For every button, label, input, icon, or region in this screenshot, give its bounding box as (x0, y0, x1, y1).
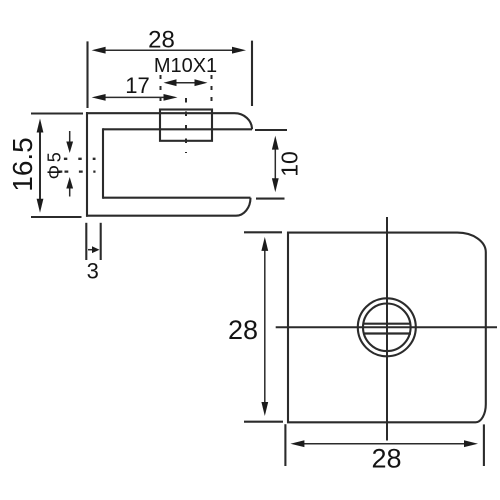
side view top arm underside line (103, 128, 252, 130)
dim 16.5: dimension line with arrows (37, 119, 44, 213)
phi5 hole dashed line lower (59, 170, 96, 172)
dim 16.5: top extension line (31, 112, 83, 114)
dim 10: dimension line with arrows (272, 136, 279, 193)
dim 28 bottom: right extension line (483, 424, 485, 466)
front view vertical center line (386, 217, 388, 441)
screw outer circle (358, 298, 416, 356)
svg-text:28: 28 (228, 315, 258, 345)
dim 16.5: bottom extension line (31, 216, 82, 218)
dim 28 left: bottom extension line (244, 421, 283, 423)
M10 dashed extension line left (160, 75, 162, 107)
dim 28 left: dimension line with arrows (261, 237, 268, 416)
svg-text:28: 28 (148, 27, 175, 54)
side view bottom arm top edge (103, 197, 251, 199)
dim 10: bottom extension line (256, 198, 285, 200)
screw slot upper line (363, 323, 411, 325)
side view inner left edge of opening (102, 128, 104, 198)
front view horizontal center line (276, 326, 497, 328)
boss M10 rectangle (160, 110, 212, 141)
dim 28 bottom: dimension line with arrows (290, 440, 478, 447)
side view top arm top edge with rounded right tip (86, 113, 252, 129)
side view outer left edge (86, 112, 88, 217)
dim 3: small arrow (88, 246, 100, 253)
dim 3: right extension line (100, 223, 102, 260)
side view bottom arm bottom edge with rounded right tip (86, 198, 251, 216)
svg-text:M10X1: M10X1 (154, 55, 217, 77)
svg-text:Φ5: Φ5 (45, 149, 65, 179)
boss dashed center line (185, 98, 187, 153)
dim 28 top: dimension line with arrows (92, 47, 246, 54)
dim 3: left extension line (85, 223, 87, 260)
svg-text:17: 17 (125, 73, 149, 98)
M10 dimension double arrow (164, 79, 208, 86)
phi5 lower arrow pointing up (66, 177, 73, 197)
M10 dashed extension line right (211, 75, 213, 107)
dim 28 left: top extension line (244, 231, 282, 233)
front view rounded square body (288, 233, 486, 423)
svg-text:3: 3 (87, 259, 99, 284)
dim 17: dimension line with arrows (92, 94, 178, 101)
svg-text:28: 28 (371, 444, 401, 474)
dim 10: top extension line (255, 129, 287, 131)
svg-text:16.5: 16.5 (7, 137, 38, 192)
svg-text:10: 10 (277, 151, 303, 177)
dim 28 bottom: left extension line (284, 424, 286, 466)
phi5 hole dashed line upper (64, 158, 96, 160)
dim 28 top: right extension line (251, 41, 253, 106)
dim 28 top: left extension line (86, 41, 88, 108)
screw inner circle (363, 304, 411, 352)
phi5 upper arrow pointing down (66, 131, 73, 153)
screw slot lower line (363, 332, 411, 334)
